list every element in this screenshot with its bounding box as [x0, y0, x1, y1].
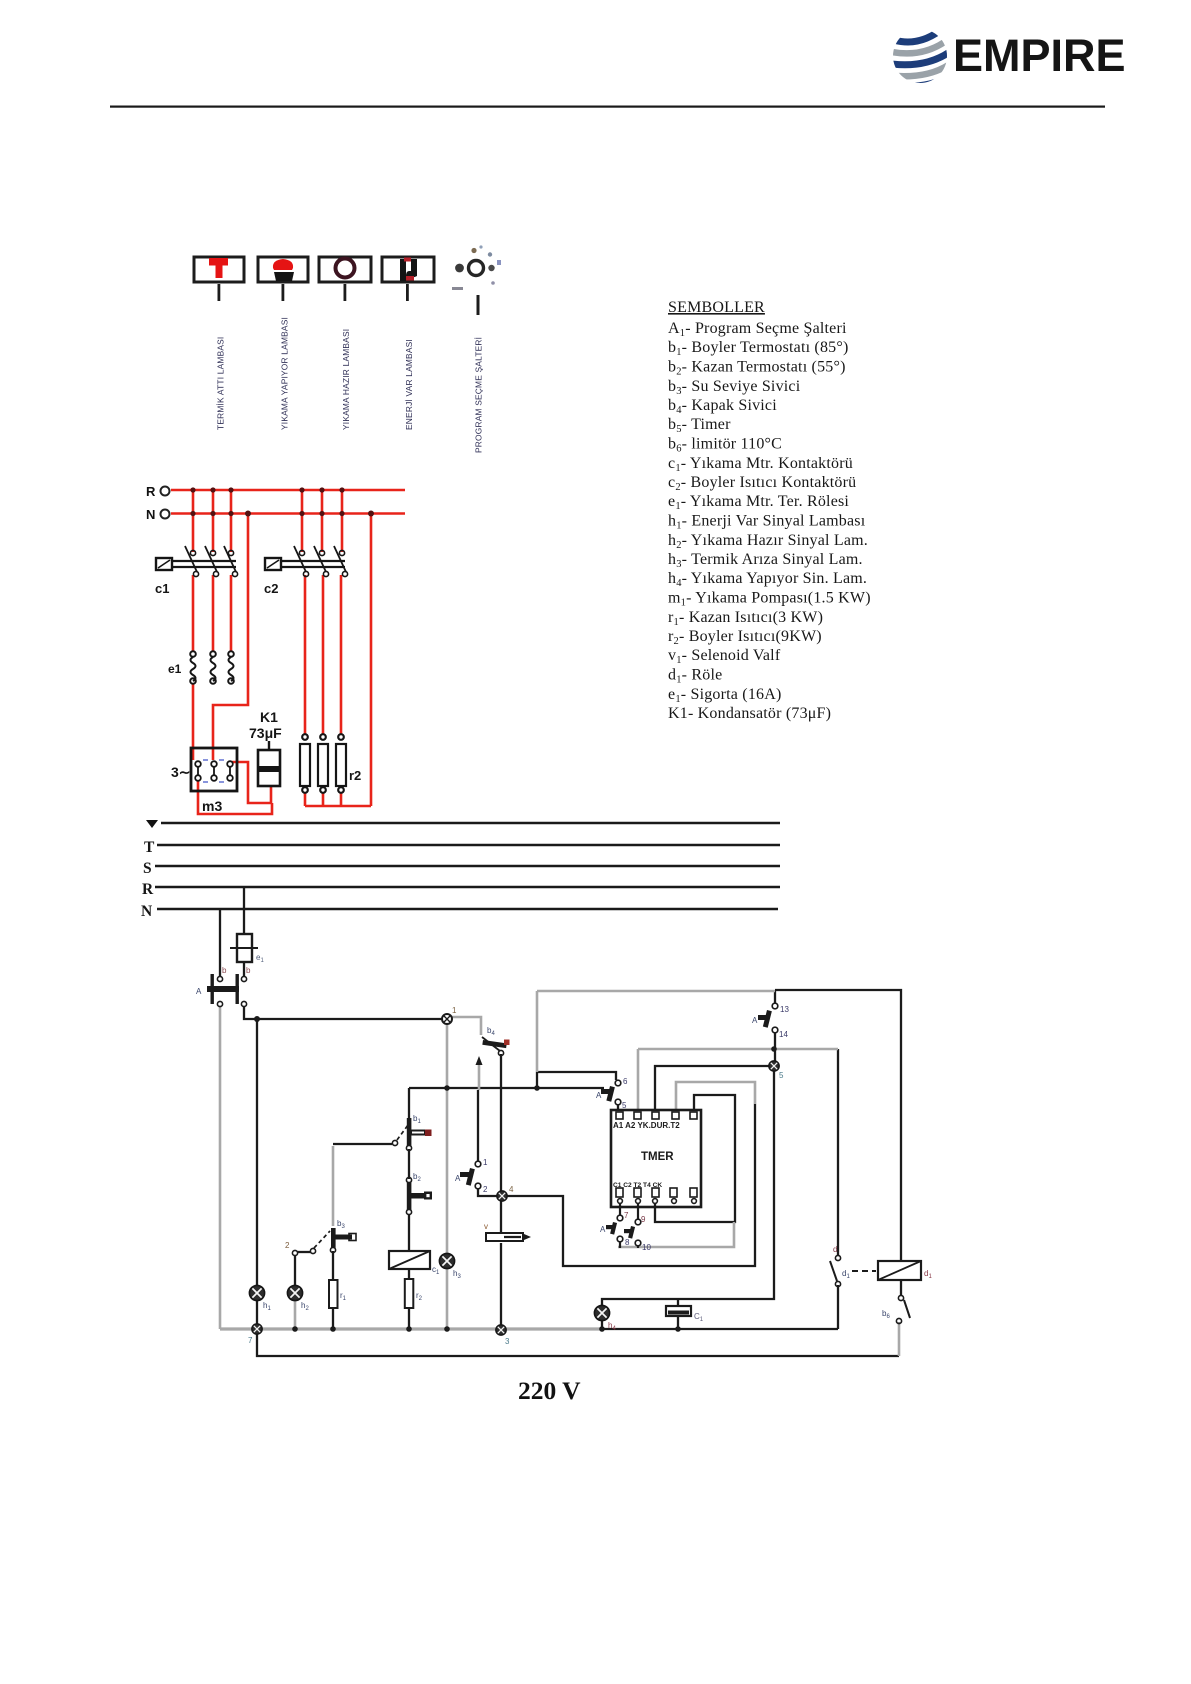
wire gray b6 to frame	[898, 1322, 901, 1356]
svg-text:h3- Termik Arıza Sinyal Lam.: h3- Termik Arıza Sinyal Lam.	[668, 551, 863, 570]
svg-text:N: N	[141, 903, 152, 920]
svg-text:7: 7	[248, 1336, 253, 1345]
bus line W arrow	[146, 820, 158, 828]
svg-text:r1- Kazan Isıtıcı(3 KW): r1- Kazan Isıtıcı(3 KW)	[668, 609, 823, 628]
svg-text:K1: K1	[260, 709, 278, 725]
junction dot x537	[534, 1085, 540, 1091]
wire c1 pole 1 to e1	[192, 575, 195, 651]
wire timer T2-T3 loop	[655, 1095, 735, 1222]
wire bus black right part	[602, 1328, 838, 1330]
svg-text:r2: r2	[349, 768, 361, 783]
bus line R	[155, 886, 780, 888]
svg-text:m3: m3	[202, 798, 222, 814]
wire node 1 drop x257	[256, 1019, 258, 1285]
bus line N	[157, 908, 778, 910]
switch b3 water level	[285, 1219, 356, 1256]
timer output contact A 7-8	[600, 1203, 630, 1248]
bus line 1	[161, 822, 780, 824]
wire d1 contact to bus	[837, 1285, 839, 1329]
wire top frame right	[775, 990, 901, 1261]
wire N drop to motor	[213, 514, 248, 761]
svg-text:14: 14	[779, 1030, 788, 1039]
wire N drop to switch	[219, 909, 221, 976]
bus line T	[157, 844, 780, 846]
timer output contact A 9-10	[624, 1203, 651, 1252]
svg-text:TMER: TMER	[641, 1151, 674, 1163]
switch b2 thermostat	[406, 1172, 432, 1215]
resistor r2 element	[405, 1279, 414, 1308]
SECTION:CONTROL	[220, 887, 901, 1356]
wire h1 to node 7	[256, 1301, 258, 1329]
wire link x537	[536, 1072, 538, 1088]
lamp h1 panel box (ENERJI VAR LAMBASI)	[382, 257, 434, 282]
wire c1 feed drops	[192, 490, 195, 552]
junction node 3	[496, 1325, 506, 1335]
svg-text:c2- Boyler Isıtıcı Kontaktörü: c2- Boyler Isıtıcı Kontaktörü	[668, 474, 856, 493]
junction dots on R and N lines	[190, 487, 374, 516]
svg-text:10: 10	[642, 1243, 651, 1252]
wire e1 to m3	[192, 683, 195, 760]
wire b3 bottom to r element	[332, 1251, 334, 1280]
lamp h4	[594, 1305, 609, 1320]
svg-text:e1- Sigorta (16A): e1- Sigorta (16A)	[668, 686, 782, 705]
wire h2 to bus gray	[294, 1301, 297, 1329]
contact A 13-14	[752, 1003, 789, 1039]
resistor r1 element	[329, 1280, 338, 1308]
svg-text:C1 C2 T2 T4 CK: C1 C2 T2 T4 CK	[613, 1182, 662, 1189]
contact A 5-6	[596, 1077, 628, 1111]
coil c1	[389, 1251, 440, 1276]
wire coil c1 to r element	[408, 1269, 410, 1279]
valve v1	[484, 1222, 531, 1241]
svg-text:ENERJİ VAR LAMBASI: ENERJİ VAR LAMBASI	[404, 339, 414, 430]
capacitor C1	[666, 1306, 704, 1323]
wire gray y1049 right drop	[837, 1049, 839, 1255]
svg-text:5: 5	[779, 1071, 784, 1080]
junction node 5	[769, 1061, 779, 1071]
contact A 1-2	[455, 1158, 488, 1194]
wire top frame tick	[774, 990, 776, 1003]
svg-text:4: 4	[509, 1185, 514, 1194]
svg-text:c2: c2	[264, 581, 278, 596]
svg-text:h2- Yıkama Hazır Sinyal Lam.: h2- Yıkama Hazır Sinyal Lam.	[668, 532, 868, 551]
svg-text:5: 5	[622, 1101, 627, 1110]
wire gray h3 riser	[446, 1021, 449, 1253]
contactor c1	[156, 546, 238, 577]
svg-text:2: 2	[285, 1241, 290, 1250]
wire gray bus left	[220, 1327, 602, 1330]
svg-text:3∼: 3∼	[171, 764, 191, 780]
SECTION:LEGEND	[668, 299, 871, 722]
wire coil d1 to b6	[900, 1279, 902, 1295]
junction dot y1049	[771, 1046, 777, 1052]
wire gray b3 riser	[332, 1146, 335, 1226]
fuse e1	[230, 934, 258, 962]
wire riser to A 1-2 contact	[477, 1090, 479, 1161]
wire r1 element to bus	[332, 1308, 334, 1329]
contactor c2	[265, 546, 348, 577]
stem lamp box 3	[344, 284, 347, 301]
wire R drop to fuse	[243, 887, 245, 934]
svg-text:m1- Yıkama Pompası(1.5 KW): m1- Yıkama Pompası(1.5 KW)	[668, 590, 871, 609]
wire node4 loop to timer DUR	[507, 1104, 755, 1266]
svg-text:YIKAMA YAPIYOR LAMBASI: YIKAMA YAPIYOR LAMBASI	[280, 317, 290, 430]
wire gray node to b4	[447, 1017, 481, 1035]
svg-text:r2- Boyler Isıtıcı(9KW): r2- Boyler Isıtıcı(9KW)	[668, 628, 822, 647]
wire gray below timer	[618, 1222, 734, 1247]
heater r2	[300, 734, 346, 793]
stem lamp box 2	[282, 284, 285, 301]
svg-text:b1- Boyler Termostatı (85°): b1- Boyler Termostatı (85°)	[668, 339, 849, 358]
junction dot node at 257,1019	[254, 1016, 260, 1022]
wire valve to node 3	[500, 1243, 502, 1325]
lamp h3 panel box (TERMIK ATTI LAMBASI)	[194, 257, 244, 282]
timer b5 box TMER	[611, 1110, 701, 1207]
wire node 4 to valve	[500, 1201, 502, 1233]
stem lamp box 4	[406, 284, 409, 301]
svg-text:b3- Su Seviye Sivici: b3- Su Seviye Sivici	[668, 378, 801, 397]
svg-text:h1- Enerji Var Sinyal Lambası: h1- Enerji Var Sinyal Lambası	[668, 513, 866, 532]
junction circled node x447 top	[442, 1014, 452, 1024]
svg-text:R: R	[142, 881, 154, 898]
wire b1 riser top	[408, 1088, 410, 1122]
bus junction dots	[292, 1326, 681, 1332]
wire c2 poles to r2	[304, 575, 307, 735]
header rule	[110, 106, 1105, 108]
motor m3	[191, 748, 237, 791]
wire switch to node row	[244, 1006, 445, 1019]
svg-text:1: 1	[452, 1006, 457, 1015]
svg-text:A1 A2 YK.DUR.T2: A1 A2 YK.DUR.T2	[613, 1121, 680, 1130]
wire r element to bus	[408, 1308, 410, 1329]
overload relay e1	[190, 651, 234, 684]
wire N drop right return	[370, 514, 373, 807]
svg-text:v1- Selenoid Valf: v1- Selenoid Valf	[668, 647, 781, 666]
svg-text:b: b	[246, 966, 251, 975]
wire A 1-2 to node 4	[478, 1189, 497, 1196]
wire gray DUR loop top	[676, 1082, 755, 1111]
bus line S	[155, 865, 780, 867]
svg-text:R: R	[146, 484, 156, 499]
wire h2 riser	[294, 1256, 296, 1285]
wire YK riser	[655, 1066, 769, 1111]
svg-text:v: v	[484, 1222, 488, 1231]
svg-text:2: 2	[483, 1185, 488, 1194]
SECTION:POWER	[171, 490, 405, 814]
contact d1	[830, 1245, 876, 1287]
svg-text:T: T	[144, 839, 155, 856]
wire r2 bottoms to N return	[304, 792, 307, 806]
wire gray top frame	[537, 990, 775, 993]
wire m3 bottom to K1 bottom	[198, 780, 272, 814]
svg-text:7: 7	[624, 1211, 629, 1220]
wire fuse to switch	[243, 962, 245, 976]
svg-text:d: d	[833, 1245, 837, 1254]
svg-text:SEMBOLLER: SEMBOLLER	[668, 299, 765, 316]
svg-text:b2- Kazan Termostatı (55°): b2- Kazan Termostatı (55°)	[668, 359, 846, 378]
switch b4 door	[482, 1026, 510, 1056]
junction node 4	[497, 1191, 507, 1201]
svg-text:d1- Röle: d1- Röle	[668, 667, 722, 686]
svg-text:A: A	[196, 987, 202, 996]
wire c2 feed drops	[301, 490, 304, 552]
lamp h3	[439, 1253, 454, 1268]
wire gray h3 to bus	[446, 1269, 449, 1329]
svg-text:YIKAMA HAZIR LAMBASI: YIKAMA HAZIR LAMBASI	[341, 329, 351, 430]
wire gray A2 riser	[637, 1049, 640, 1111]
wire A 13-14 to node 5	[774, 1033, 776, 1062]
wire b1 feed line	[409, 1087, 604, 1089]
wire node7 to bottom frame	[257, 1334, 899, 1356]
svg-text:PROGRAM SEÇME ŞALTERİ: PROGRAM SEÇME ŞALTERİ	[474, 337, 484, 453]
svg-text:c1- Yıkama Mtr. Kontaktörü: c1- Yıkama Mtr. Kontaktörü	[668, 455, 853, 474]
svg-text:9: 9	[641, 1215, 646, 1224]
wire gray riser x537	[536, 991, 539, 1072]
wire node5 to h4	[602, 1070, 774, 1305]
svg-text:A: A	[752, 1016, 758, 1025]
blue scan marks m3 terminals	[203, 760, 224, 782]
svg-text:A: A	[596, 1091, 602, 1100]
wire b1 pole feed	[333, 1143, 392, 1145]
svg-text:6: 6	[623, 1077, 628, 1086]
wire C1 top	[677, 1299, 679, 1307]
wire b3 throw to h2	[297, 1251, 311, 1253]
svg-text:N: N	[146, 507, 155, 522]
junction dot b1 line x447	[444, 1085, 450, 1091]
wire b1 to b2	[408, 1149, 410, 1179]
svg-text:1: 1	[483, 1158, 488, 1167]
wire gray N side riser	[219, 1006, 222, 1329]
svg-text:TERMİK ATTI LAMBASI: TERMİK ATTI LAMBASI	[216, 337, 226, 430]
svg-text:K1- Kondansatör (73μF): K1- Kondansatör (73μF)	[668, 705, 831, 722]
svg-text:e1- Yıkama Mtr. Ter. Rölesi: e1- Yıkama Mtr. Ter. Rölesi	[668, 493, 849, 512]
program selector knob A	[452, 245, 501, 290]
svg-text:S: S	[143, 860, 152, 877]
wire R phase line	[171, 489, 405, 492]
relay coil d1	[878, 1261, 932, 1280]
svg-text:73μF: 73μF	[249, 725, 282, 741]
wire gray arrow riser b4	[478, 1060, 481, 1090]
svg-text:EMPIRE: EMPIRE	[953, 30, 1126, 81]
svg-text:h4- Yıkama Yapıyor Sin. Lam.: h4- Yıkama Yapıyor Sin. Lam.	[668, 570, 867, 589]
wire N line	[171, 512, 405, 515]
EMPIRE logo globe icon	[892, 24, 951, 86]
wire riser x537 to contact 6	[537, 1072, 616, 1080]
main switch A	[196, 966, 251, 1007]
svg-text:b: b	[222, 966, 227, 975]
lamp h4 panel box (YIKAMA YAPIYOR LAMBASI)	[258, 257, 308, 282]
svg-text:e1: e1	[168, 662, 182, 676]
stem selector	[477, 295, 480, 315]
stem lamp box 1	[218, 284, 221, 301]
svg-text:8: 8	[625, 1238, 630, 1247]
contact b6 limiter	[882, 1295, 910, 1323]
svg-text:A: A	[600, 1225, 606, 1234]
switch b1 thermostat	[392, 1114, 431, 1151]
wire C1 bottom	[677, 1317, 679, 1329]
svg-text:3: 3	[505, 1337, 510, 1346]
svg-text:A: A	[455, 1174, 461, 1183]
svg-text:A1- Program Seçme Şalteri: A1- Program Seçme Şalteri	[668, 320, 847, 339]
svg-text:b4- Kapak Sivici: b4- Kapak Sivici	[668, 397, 777, 416]
lamp h2 panel box (YIKAMA HAZIR LAMBASI)	[319, 257, 371, 282]
svg-text:c1: c1	[155, 581, 169, 596]
wire b4 to node 4	[500, 1054, 502, 1191]
wire gray y1049	[638, 1048, 838, 1051]
wire m3 T3 to K1	[232, 762, 271, 803]
junction node 7	[252, 1324, 262, 1334]
wire b2 to coil c1	[408, 1214, 410, 1251]
wire h4 to bus	[601, 1321, 603, 1329]
arrow actuator b4	[476, 1056, 483, 1065]
svg-text:220 V: 220 V	[518, 1376, 581, 1405]
lamp h2	[287, 1285, 302, 1300]
lamp h1	[249, 1285, 264, 1300]
svg-text:b6- limitör 110°C: b6- limitör 110°C	[668, 436, 782, 455]
svg-text:13: 13	[780, 1005, 789, 1014]
